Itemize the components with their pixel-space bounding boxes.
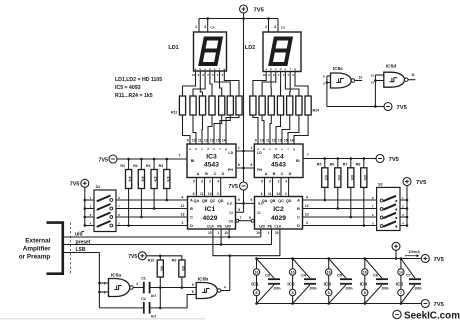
wire/node: u/d line (63, 229, 261, 238)
svg-text:100n: 100n (273, 287, 280, 291)
IC IC1 4029 counter (181, 196, 236, 229)
svg-text:4: 4 (306, 196, 308, 200)
resistor R2 47k (133, 164, 144, 188)
IC power pins IC2 (287, 259, 295, 304)
svg-text:10: 10 (263, 73, 267, 77)
resistor R4 47k (159, 164, 170, 188)
svg-text:10: 10 (192, 73, 196, 77)
svg-text:A: A (190, 199, 193, 203)
capacitor C3 100n (257, 259, 281, 304)
svg-text:10: 10 (224, 231, 228, 235)
svg-text:PE: PE (268, 225, 273, 229)
svg-text:4: 4 (285, 180, 287, 184)
switch S2 (4x preset) (372, 183, 407, 231)
svg-text:1: 1 (238, 146, 240, 150)
svg-text:LD: LD (228, 151, 233, 155)
svg-text:R9: R9 (172, 259, 177, 263)
svg-text:8: 8 (204, 25, 206, 29)
resistor bank R18..R24 (1k5) (250, 96, 319, 115)
svg-text:LD1,LD2 = HD 1105: LD1,LD2 = HD 1105 (115, 77, 162, 83)
svg-text:9: 9 (187, 139, 189, 143)
svg-text:47k: 47k (153, 176, 157, 182)
svg-text:15: 15 (284, 139, 288, 143)
svg-text:b: b (270, 67, 272, 71)
svg-text:7: 7 (179, 154, 181, 158)
svg-text:100n: 100n (309, 287, 316, 291)
svg-text:f: f (288, 147, 289, 151)
svg-text:C: C (190, 216, 193, 220)
power terminal 7V5 right top (421, 255, 444, 263)
svg-text:4029: 4029 (271, 215, 286, 222)
svg-text:12: 12 (204, 139, 208, 143)
resistor R10 47k (148, 259, 164, 278)
wire: C2 bottom path to IC5b pin6 (99, 290, 196, 308)
svg-text:IC1: IC1 (251, 282, 259, 288)
svg-text:5: 5 (249, 216, 251, 220)
svg-text:3: 3 (306, 221, 308, 225)
svg-text:47k: 47k (128, 176, 132, 182)
svg-text:6: 6 (192, 290, 194, 294)
svg-text:14: 14 (222, 139, 226, 143)
resistor R9 47k (172, 259, 185, 278)
IC IC2 4029 counter (255, 196, 309, 229)
svg-text:d: d (207, 147, 209, 151)
svg-text:Amplifier: Amplifier (23, 245, 51, 252)
svg-text:14: 14 (276, 192, 280, 196)
svg-text:47k: 47k (350, 175, 354, 181)
wire: R1-R4 to preset rows (127, 189, 168, 227)
svg-text:C2: C2 (141, 297, 146, 301)
svg-text:47k: 47k (324, 175, 328, 181)
svg-text:LD1: LD1 (168, 45, 178, 51)
svg-text:D: D (297, 224, 300, 228)
svg-text:8: 8 (292, 291, 294, 295)
svg-text:4543: 4543 (271, 162, 286, 169)
svg-text:7V5: 7V5 (254, 7, 265, 13)
pin labels IC1 bottom (208, 231, 228, 235)
svg-text:R5: R5 (317, 163, 322, 167)
resistor R6 47k (330, 163, 341, 188)
svg-text:2: 2 (104, 291, 106, 295)
svg-text:B: B (273, 172, 276, 176)
svg-text:5: 5 (238, 208, 240, 212)
svg-text:C1: C1 (141, 277, 146, 281)
svg-text:g: g (293, 147, 295, 151)
svg-text:C6: C6 (373, 274, 378, 278)
svg-text:IC2: IC2 (273, 206, 284, 213)
svg-text:10: 10 (359, 75, 363, 79)
scan artifact bottom left (0, 318, 205, 320)
svg-text:4n7: 4n7 (151, 314, 157, 318)
svg-text:IC2: IC2 (287, 282, 295, 288)
svg-text:External: External (25, 237, 50, 244)
svg-text:B: B (190, 207, 193, 211)
svg-text:D: D (289, 172, 292, 176)
IC power pins IC4 (360, 259, 368, 304)
svg-text:QC: QC (278, 199, 284, 203)
power terminal 7V5 top (240, 5, 265, 13)
capacitor C4 100n (293, 259, 317, 304)
pin labels IC2 bottom (256, 231, 279, 235)
svg-text:IC5b: IC5b (198, 276, 208, 282)
svg-text:1: 1 (217, 231, 219, 235)
svg-text:6: 6 (261, 192, 263, 196)
svg-text:16: 16 (291, 270, 295, 274)
nand gate IC5b (196, 276, 226, 298)
svg-text:CLK: CLK (274, 225, 282, 229)
svg-text:11: 11 (266, 139, 270, 143)
svg-text:13: 13 (371, 80, 375, 84)
wire: BI rail left with R1-R4 taps (117, 154, 187, 170)
power terminal 7V5 right BI rail (376, 155, 400, 163)
switch S1 (4x preset) (85, 185, 120, 232)
svg-text:R8: R8 (356, 163, 361, 167)
svg-text:IC4: IC4 (360, 282, 368, 288)
svg-text:B,D: B,D (227, 201, 233, 205)
svg-text:S1: S1 (96, 185, 101, 189)
svg-text:16: 16 (363, 270, 367, 274)
IC power pins IC3 (323, 259, 331, 304)
svg-text:U/D: U/D (259, 225, 265, 229)
svg-text:3: 3 (201, 180, 203, 184)
nand gate IC5d (371, 63, 416, 87)
svg-text:47k: 47k (140, 176, 144, 182)
svg-text:100n: 100n (381, 287, 388, 291)
resistor R3 47k (146, 164, 157, 188)
svg-text:4n7: 4n7 (151, 294, 157, 298)
capacitor C7 100n (401, 259, 422, 304)
svg-text:9: 9 (250, 198, 252, 202)
power terminal 7V5 right bottom (421, 300, 444, 308)
capacitor C5 100n (329, 259, 353, 304)
wire: S1 common bus (84, 187, 87, 227)
svg-text:IC5d: IC5d (386, 63, 396, 69)
svg-text:B,D: B,D (258, 201, 264, 205)
svg-text:R3: R3 (146, 164, 151, 168)
svg-text:8: 8 (364, 291, 366, 295)
svg-text:C: C (214, 172, 217, 176)
wire: R5-R8 to rows (324, 187, 366, 226)
svg-text:7: 7 (240, 216, 242, 220)
svg-text:100n: 100n (345, 287, 352, 291)
power terminal 7V5 middle (228, 182, 247, 190)
svg-text:11: 11 (198, 139, 202, 143)
svg-text:4029: 4029 (203, 215, 218, 222)
svg-text:CI: CI (257, 211, 260, 215)
svg-text:QB: QB (270, 199, 276, 203)
svg-text:CI: CI (229, 211, 232, 215)
wire: decoupling top rail 7V5 (255, 257, 421, 260)
svg-text:5: 5 (193, 180, 195, 184)
svg-text:R1: R1 (120, 164, 125, 168)
svg-text:preset: preset (76, 240, 91, 246)
svg-text:16: 16 (327, 270, 331, 274)
wire: C1 node to IC5b pin5 (151, 277, 197, 309)
resistor R1 47k (120, 164, 131, 188)
svg-text:D: D (190, 224, 193, 228)
svg-text:IC3: IC3 (206, 154, 217, 161)
dashed separator line (69, 223, 71, 274)
svg-text:14: 14 (290, 139, 294, 143)
svg-text:IC5: IC5 (396, 282, 404, 288)
svg-text:C5: C5 (337, 274, 342, 278)
wire: IC4 BI rail right with R5-R8 taps (303, 153, 376, 168)
svg-text:7: 7 (307, 153, 309, 157)
svg-text:1: 1 (268, 231, 270, 235)
power terminal 7V5 left (BI rail) (98, 155, 117, 163)
svg-text:7V5: 7V5 (434, 302, 445, 308)
svg-text:3: 3 (182, 221, 184, 225)
svg-text:7V5: 7V5 (416, 180, 427, 186)
wire: R18-R24 to IC4 segment inputs (253, 115, 308, 144)
svg-text:13: 13 (181, 213, 185, 217)
svg-text:LD: LD (257, 151, 262, 155)
svg-text:B: B (297, 207, 300, 211)
wire/node: preset line (63, 229, 272, 246)
svg-text:4: 4 (182, 196, 184, 200)
svg-text:R24: R24 (313, 109, 320, 113)
svg-text:g: g (225, 147, 227, 151)
power terminal 7V5 at R10 (128, 252, 146, 260)
svg-text:g: g (223, 67, 225, 71)
svg-text:14: 14 (399, 270, 403, 274)
IC power pins IC1 (251, 259, 259, 304)
svg-text:QA: QA (194, 199, 200, 203)
svg-text:R7: R7 (343, 163, 348, 167)
svg-text:4543: 4543 (204, 162, 219, 169)
svg-text:10: 10 (260, 139, 264, 143)
power terminal 7V5 at IC5c/d (384, 103, 408, 111)
svg-text:R10: R10 (148, 259, 155, 263)
wire: decoupling bottom rail 7V5 (255, 302, 421, 305)
wire: 7V5 top rail to display CA pins (195, 13, 286, 32)
svg-text:D: D (222, 172, 225, 176)
svg-text:5: 5 (192, 283, 194, 287)
svg-text:3: 3 (269, 180, 271, 184)
svg-text:47k: 47k (363, 175, 367, 181)
watermark SeekIC.com (393, 310, 460, 321)
svg-text:47k: 47k (159, 266, 163, 272)
power terminal 7V5 at S2 (403, 178, 427, 187)
svg-text:d: d (209, 67, 211, 71)
note text block (115, 77, 162, 99)
svg-text:R4: R4 (159, 164, 164, 168)
svg-text:2: 2 (209, 180, 211, 184)
svg-text:d: d (275, 147, 277, 151)
svg-text:7V5: 7V5 (389, 157, 400, 163)
svg-text:8: 8 (274, 25, 276, 29)
wire: IC2 outputs rows to S2 (303, 200, 377, 226)
svg-text:b: b (263, 147, 265, 151)
power feed 7V5 into rails (392, 242, 420, 258)
svg-text:13: 13 (210, 139, 214, 143)
svg-text:A: A (297, 199, 300, 203)
nand gate IC5c (323, 66, 362, 88)
op-amp/IC U: IC3 4543 BCD-to-7seg (187, 144, 236, 178)
svg-text:R11...R24 = 1k5: R11...R24 = 1k5 (115, 93, 153, 99)
svg-text:u/d: u/d (75, 231, 83, 237)
svg-text:15: 15 (216, 139, 220, 143)
svg-text:3: 3 (265, 25, 267, 29)
svg-text:S2: S2 (378, 183, 383, 187)
wire/node: LSB line to IC5a (63, 247, 109, 308)
wire: LD1 segment pins to resistors R11-R17 (183, 79, 240, 96)
svg-text:A: A (265, 172, 268, 176)
svg-text:C7: C7 (406, 274, 411, 278)
svg-text:100n: 100n (414, 287, 421, 291)
svg-text:3: 3 (136, 282, 138, 286)
svg-text:A: A (197, 172, 200, 176)
wire: S2 common bus (406, 186, 409, 227)
svg-text:2: 2 (217, 192, 219, 196)
svg-text:6: 6 (193, 192, 195, 196)
svg-text:CLK: CLK (207, 225, 215, 229)
wire: carry out links between IC1 and IC2 (236, 216, 255, 222)
svg-text:12: 12 (272, 139, 276, 143)
external amplifier block (19, 223, 63, 274)
svg-text:4: 4 (217, 180, 219, 184)
svg-text:LD2: LD2 (245, 45, 255, 51)
svg-text:47k: 47k (166, 176, 170, 182)
svg-text:f: f (290, 67, 291, 71)
svg-text:7V5: 7V5 (128, 254, 137, 260)
svg-text:1: 1 (104, 282, 106, 286)
resistor R7 47k (343, 163, 354, 188)
svg-text:PE: PE (217, 225, 222, 229)
svg-text:f: f (219, 67, 220, 71)
svg-text:7V5: 7V5 (228, 184, 238, 190)
svg-text:b: b (195, 147, 197, 151)
capacitor C1 4n7 (139, 277, 157, 298)
svg-text:12: 12 (181, 204, 185, 208)
svg-text:SeekIC.com: SeekIC.com (404, 311, 460, 322)
svg-text:7V5: 7V5 (70, 182, 80, 188)
svg-text:BI: BI (296, 159, 300, 163)
display LD2 (7-segment, HD1105) (245, 32, 301, 79)
svg-text:6: 6 (251, 163, 253, 167)
nand gate IC5a (104, 272, 139, 296)
power terminal 7V5 at S1 (70, 179, 89, 187)
svg-text:QD: QD (286, 199, 292, 203)
resistor R8 47k (356, 163, 367, 188)
svg-text:IC3: IC3 (323, 282, 331, 288)
svg-text:14: 14 (208, 192, 212, 196)
svg-text:7V5: 7V5 (98, 157, 108, 163)
svg-text:12: 12 (371, 73, 375, 77)
svg-text:4: 4 (224, 286, 226, 290)
svg-text:7V5: 7V5 (434, 257, 445, 263)
svg-text:9: 9 (238, 198, 240, 202)
capacitor C2 4n7 (141, 297, 156, 318)
svg-text:g: g (294, 67, 296, 71)
display LD1 (7-segment, HD1105) (168, 32, 226, 79)
svg-text:2: 2 (278, 180, 280, 184)
svg-text:IC1: IC1 (205, 206, 216, 213)
svg-text:IC5a: IC5a (111, 272, 121, 278)
svg-text:C3: C3 (265, 274, 270, 278)
wire: LD2 segment pins to resistors R18-R24 (253, 79, 308, 96)
svg-text:7V5: 7V5 (397, 105, 408, 111)
svg-text:QD: QD (218, 199, 224, 203)
svg-text:b: b (199, 67, 201, 71)
svg-text:U/D: U/D (225, 225, 231, 229)
svg-text:PH: PH (257, 168, 262, 172)
capacitor C6 100n (365, 259, 389, 304)
svg-text:7: 7 (400, 291, 402, 295)
svg-text:1: 1 (251, 146, 253, 150)
svg-text:f: f (220, 147, 221, 151)
svg-text:C: C (297, 216, 300, 220)
wire: middle 7V5 column with LD and PH links (236, 19, 254, 183)
wire: middle column to counters B/D and CI (236, 190, 255, 212)
svg-text:B: B (205, 172, 208, 176)
svg-text:LSB: LSB (76, 247, 86, 253)
svg-text:10: 10 (256, 231, 260, 235)
svg-text:PH: PH (228, 168, 233, 172)
IC IC4 4543 BCD-to-7seg (254, 144, 303, 178)
svg-text:9: 9 (255, 139, 257, 143)
svg-text:IC4: IC4 (273, 154, 284, 161)
svg-text:47k: 47k (181, 266, 185, 272)
wire: IC5b output to clock link (223, 256, 230, 291)
IC power pins IC5 (396, 259, 404, 304)
svg-text:12: 12 (305, 204, 309, 208)
svg-text:13: 13 (305, 213, 309, 217)
svg-text:110mA: 110mA (408, 250, 420, 254)
svg-text:or Preamp: or Preamp (19, 253, 51, 260)
svg-text:2: 2 (285, 192, 287, 196)
svg-text:11: 11 (200, 192, 204, 196)
svg-text:6: 6 (238, 163, 240, 167)
wire: pullup rail to R10 R9 (146, 255, 182, 261)
svg-text:CO: CO (229, 219, 234, 223)
svg-text:13: 13 (278, 139, 282, 143)
wire: R11-R17 to IC3 segment inputs (183, 115, 240, 144)
wire/node: clock link line (213, 229, 280, 257)
svg-text:IC5c: IC5c (333, 66, 343, 72)
svg-text:15: 15 (208, 231, 212, 235)
svg-text:16: 16 (255, 270, 259, 274)
svg-text:R2: R2 (133, 164, 138, 168)
svg-text:8: 8 (256, 291, 258, 295)
svg-text:8: 8 (328, 291, 330, 295)
resistor R5 47k (317, 163, 328, 188)
svg-text:47k: 47k (337, 175, 341, 181)
svg-text:BI: BI (191, 159, 195, 163)
svg-text:R6: R6 (330, 163, 335, 167)
svg-text:11: 11 (411, 73, 415, 77)
svg-text:QC: QC (210, 199, 216, 203)
wire: IC3 outputs to IC1 (BCD bus left) (193, 178, 221, 197)
svg-text:QB: QB (202, 199, 208, 203)
svg-text:C: C (281, 172, 284, 176)
svg-text:15: 15 (275, 231, 279, 235)
wire: IC5c/IC5d unused inputs to 7V5 (326, 79, 384, 108)
svg-text:5: 5 (261, 180, 263, 184)
wire: IC4 outputs to IC2 (BCD bus right) (261, 178, 289, 197)
svg-text:11: 11 (268, 192, 272, 196)
svg-text:10: 10 (192, 139, 196, 143)
resistor bank R11..R17 (1k5) (171, 96, 242, 115)
svg-text:d: d (280, 67, 282, 71)
svg-text:3: 3 (195, 25, 197, 29)
svg-text:R11: R11 (171, 111, 177, 115)
wire: S1 rows to IC1 inputs (116, 200, 188, 226)
svg-text:IC5 = 4093: IC5 = 4093 (115, 85, 141, 91)
